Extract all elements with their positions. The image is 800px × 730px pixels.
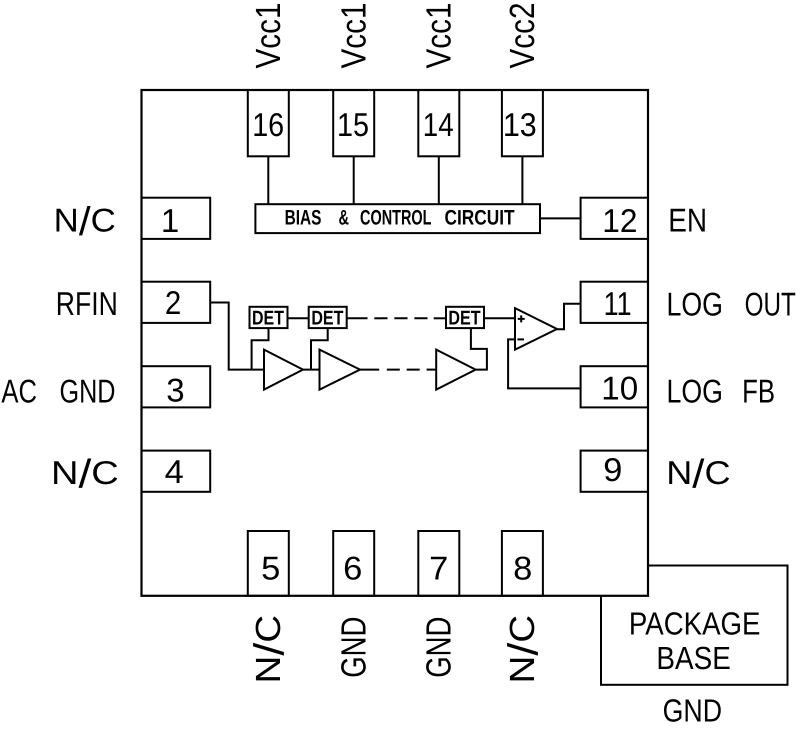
svg-text:GND: GND: [663, 692, 722, 728]
pin 10 box: [581, 366, 648, 407]
wire pin 13 to bias box: [521, 156, 523, 204]
svg-text:Vcc1: Vcc1: [420, 3, 459, 69]
svg-text:BIAS: BIAS: [285, 206, 322, 229]
svg-text:Vcc1: Vcc1: [334, 3, 373, 69]
amp A1: [264, 350, 303, 390]
wire A1 output to A2 input: [303, 369, 320, 371]
svg-text:N/C: N/C: [54, 200, 116, 244]
svg-text:CONTROL: CONTROL: [360, 206, 432, 229]
amp A3: [436, 350, 475, 390]
svg-text:PACKAGE: PACKAGE: [629, 605, 761, 641]
op-amp plus sign: [518, 315, 525, 322]
pin 9 box: [581, 451, 648, 492]
svg-text:2: 2: [165, 284, 181, 321]
svg-text:DET: DET: [311, 307, 343, 329]
svg-text:AC: AC: [1, 372, 37, 409]
pin 15 box: [333, 90, 374, 156]
svg-text:GND: GND: [420, 617, 459, 678]
pin 3 box: [142, 366, 211, 407]
svg-text:10: 10: [601, 369, 638, 406]
pin 7 box: [418, 531, 459, 596]
svg-text:GND: GND: [334, 617, 373, 678]
svg-text:FB: FB: [742, 372, 775, 409]
svg-text:Vcc2: Vcc2: [503, 3, 542, 69]
svg-text:DET: DET: [448, 307, 480, 329]
wire op-amp minus feedback to pin 10 LOG FB: [508, 339, 580, 388]
amp A2: [320, 350, 361, 390]
svg-text:CIRCUIT: CIRCUIT: [445, 206, 515, 229]
wire D1 tap to amp A1 input: [252, 328, 269, 370]
wire D2 tap to amp A2 input: [311, 328, 328, 370]
wire pin 15 to bias box: [353, 156, 355, 204]
package base box: [601, 566, 788, 685]
wire A3 output to D3 tap: [471, 328, 487, 370]
wire op-amp output to pin 11: [557, 304, 581, 330]
pin 16 box: [248, 90, 289, 156]
svg-text:DET: DET: [252, 307, 284, 329]
dashed wire A2 output to A3 input: [387, 369, 420, 371]
svg-text:N/C: N/C: [246, 615, 293, 684]
svg-text:OUT: OUT: [745, 286, 796, 323]
dashed wire D2 to D3: [374, 317, 427, 319]
svg-text:LOG: LOG: [667, 372, 724, 409]
svg-text:4: 4: [165, 453, 184, 490]
pin 1 box: [142, 198, 211, 239]
svg-text:&: &: [339, 206, 350, 229]
pin 6 box: [333, 531, 374, 596]
svg-text:14: 14: [423, 106, 454, 143]
svg-text:15: 15: [337, 106, 369, 143]
pin 11 box: [581, 282, 648, 323]
svg-text:GND: GND: [60, 372, 116, 409]
pin 13 box: [502, 90, 543, 156]
wire D1 to D2: [288, 317, 309, 319]
wire pin 16 to bias box: [267, 156, 269, 204]
wire bias box to pin 12: [540, 217, 581, 219]
svg-text:11: 11: [604, 285, 632, 322]
bias and control circuit box: [255, 204, 540, 233]
svg-text:6: 6: [343, 550, 362, 587]
svg-text:N/C: N/C: [51, 453, 119, 497]
svg-text:7: 7: [429, 550, 448, 587]
svg-text:N/C: N/C: [500, 615, 547, 684]
svg-text:EN: EN: [668, 202, 707, 239]
chip outline: [142, 90, 649, 596]
wire A3 input stub: [427, 369, 437, 371]
svg-text:BASE: BASE: [656, 640, 730, 676]
svg-text:5: 5: [261, 550, 280, 587]
svg-text:8: 8: [513, 550, 532, 587]
svg-text:1: 1: [161, 202, 179, 239]
wire A2 output stub: [360, 369, 379, 371]
pin 2 box: [142, 282, 211, 323]
wire pin 14 to bias box: [438, 156, 440, 204]
wire D3 left stub: [434, 317, 446, 319]
svg-text:16: 16: [252, 106, 284, 143]
pin 5 box: [248, 531, 289, 596]
op-amp U1: [515, 308, 557, 350]
detector D3 box: [446, 307, 484, 328]
svg-text:12: 12: [602, 202, 637, 239]
pin 14 box: [418, 90, 459, 156]
wire D2 right stub: [347, 317, 368, 319]
svg-text:LOG: LOG: [667, 286, 724, 323]
svg-text:N/C: N/C: [666, 453, 730, 497]
op-amp minus sign: [517, 338, 524, 340]
pin 12 box: [581, 198, 648, 239]
svg-text:RFIN: RFIN: [56, 285, 118, 322]
svg-text:Vcc1: Vcc1: [249, 3, 288, 69]
pin 8 box: [502, 531, 543, 596]
pin 4 box: [142, 451, 211, 492]
svg-text:3: 3: [166, 371, 184, 408]
detector D1 box: [250, 307, 288, 328]
wire RFIN pin 2 to amp A1 input: [210, 303, 264, 370]
wire D3 to op-amp plus input: [484, 317, 515, 319]
svg-text:9: 9: [603, 451, 622, 488]
detector D2 box: [309, 307, 347, 328]
svg-text:13: 13: [503, 106, 537, 143]
